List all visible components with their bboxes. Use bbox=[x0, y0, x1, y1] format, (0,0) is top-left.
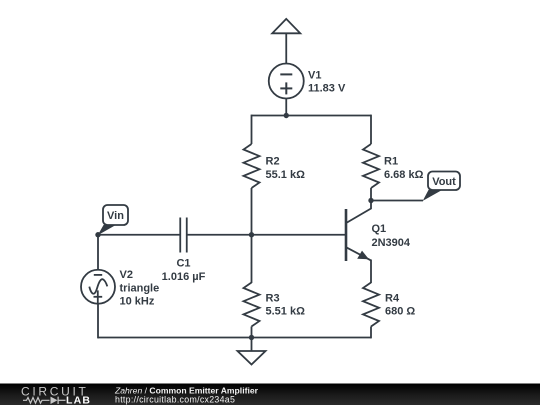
wire V1 bottom to top rail bbox=[285, 99, 287, 116]
wire R1 bottom to collector node bbox=[370, 188, 372, 201]
net flag Vin bbox=[98, 205, 128, 235]
svg-text:10 kHz: 10 kHz bbox=[120, 296, 155, 308]
capacitor C1 bbox=[180, 218, 187, 253]
svg-text:Vin: Vin bbox=[107, 210, 124, 222]
power flag VCC (triangle) bbox=[272, 19, 300, 33]
svg-text:V1: V1 bbox=[308, 69, 321, 81]
net flag Vout bbox=[423, 172, 460, 201]
node Vin junction bbox=[95, 232, 100, 237]
wire top rail to R1 bbox=[370, 115, 372, 144]
svg-text:2N3904: 2N3904 bbox=[372, 237, 411, 249]
wire bottom rail bbox=[98, 337, 371, 339]
voltage source V2 bbox=[81, 270, 115, 304]
wire collector node to Vout flag bbox=[371, 200, 423, 202]
wire top rail to R2 bbox=[251, 115, 253, 144]
resistor R4 bbox=[363, 283, 379, 327]
wire R3 bottom to ground rail bbox=[251, 327, 253, 338]
node collector junction bbox=[368, 198, 373, 203]
voltage source V1 bbox=[269, 64, 304, 99]
wire top rail bbox=[252, 115, 372, 117]
svg-text:680 Ω: 680 Ω bbox=[385, 306, 415, 318]
logo resistor-diode glyph bbox=[23, 397, 66, 404]
wire V2 bottom to ground rail bbox=[97, 304, 99, 339]
wire C1 right plate to Q1 base bbox=[187, 234, 345, 236]
svg-text:LAB: LAB bbox=[66, 394, 91, 405]
resistor R2 bbox=[244, 144, 260, 188]
ground bbox=[238, 351, 266, 365]
svg-text:1.016 µF: 1.016 µF bbox=[162, 271, 206, 283]
svg-text:R2: R2 bbox=[266, 155, 280, 167]
node V1 junction bbox=[284, 113, 289, 118]
wire Vin node to V2 top bbox=[97, 235, 99, 270]
svg-text:http://circuitlab.com/cx234a5: http://circuitlab.com/cx234a5 bbox=[115, 394, 235, 404]
svg-text:R3: R3 bbox=[266, 292, 280, 304]
svg-text:C1: C1 bbox=[176, 257, 190, 269]
node base divider junction bbox=[249, 232, 254, 237]
wire R4 bottom to ground rail bbox=[370, 327, 372, 339]
wire collector node down to Q1 collector bbox=[347, 201, 371, 223]
svg-text:triangle: triangle bbox=[120, 282, 160, 294]
svg-text:5.51 kΩ: 5.51 kΩ bbox=[266, 306, 306, 318]
wire Q1 emitter to R4 bbox=[370, 260, 372, 284]
svg-text:11.83 V: 11.83 V bbox=[308, 83, 346, 95]
resistor R3 bbox=[244, 283, 260, 327]
svg-text:R1: R1 bbox=[384, 155, 398, 167]
svg-text:Q1: Q1 bbox=[372, 223, 387, 235]
footer bar bbox=[0, 384, 540, 405]
svg-text:V2: V2 bbox=[120, 269, 133, 281]
svg-text:55.1 kΩ: 55.1 kΩ bbox=[266, 169, 306, 181]
svg-text:Vout: Vout bbox=[432, 176, 456, 188]
svg-text:R4: R4 bbox=[385, 292, 400, 304]
node ground junction bbox=[249, 335, 254, 340]
wire Vin node to C1 left plate bbox=[98, 234, 180, 236]
svg-text:6.68 kΩ: 6.68 kΩ bbox=[384, 169, 424, 181]
resistor R1 bbox=[363, 144, 379, 188]
wire VCC to V1 top bbox=[285, 33, 287, 63]
wire R2 bottom to base rail bbox=[251, 188, 253, 235]
wire ground rail to ground symbol bbox=[251, 338, 253, 352]
transistor Q1 bbox=[346, 209, 371, 261]
wire base node to R3 bbox=[251, 235, 253, 283]
